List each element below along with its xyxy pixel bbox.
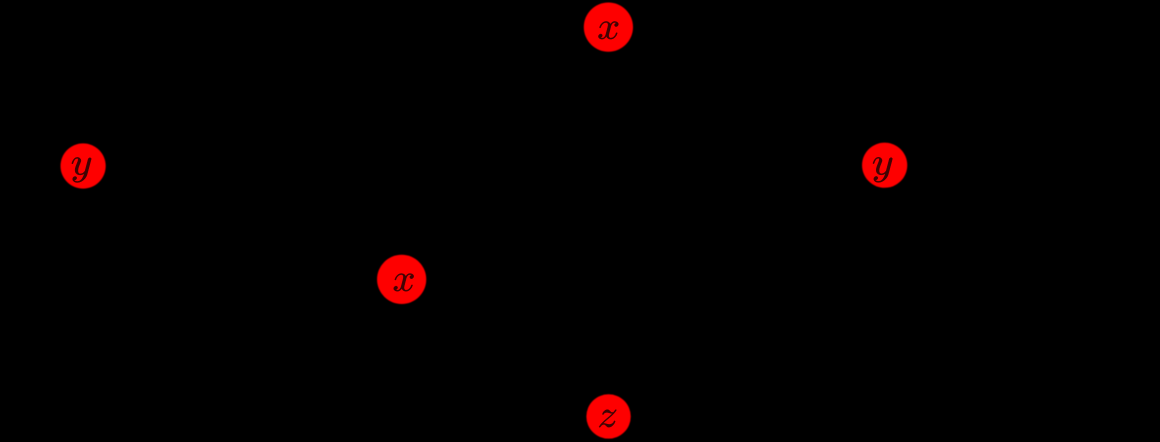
- node x (middle): [377, 255, 426, 304]
- node z (bottom): [586, 394, 630, 438]
- node y (right): [862, 143, 907, 188]
- node x (top, root of left tree): [584, 3, 633, 52]
- node y (left child): [61, 143, 106, 188]
